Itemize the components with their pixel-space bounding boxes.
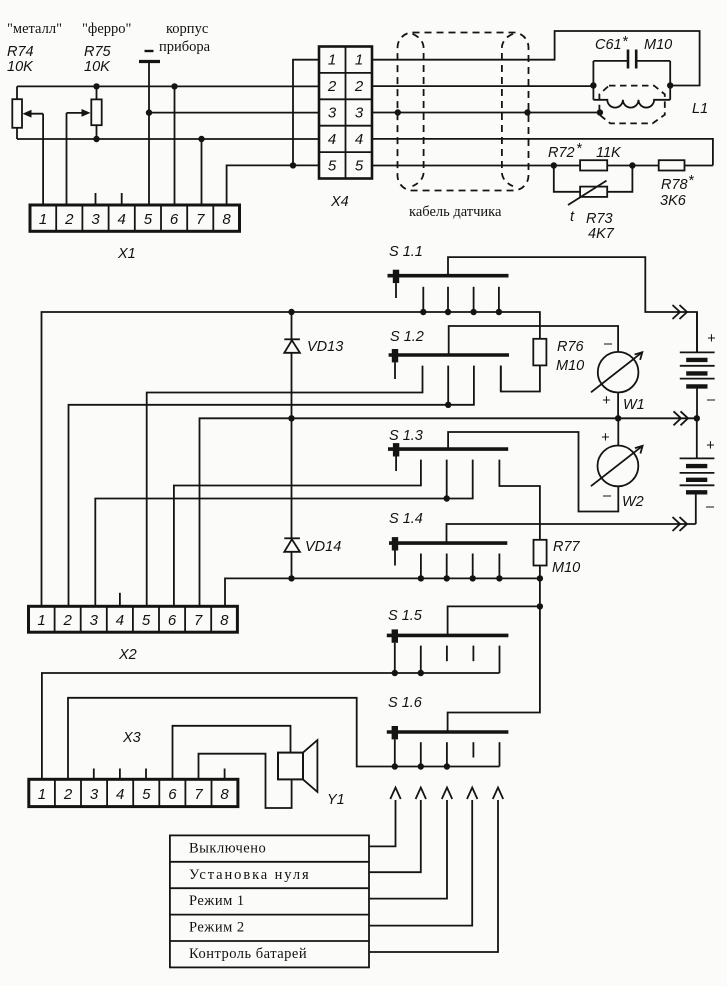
junction R72 node right [629, 162, 635, 168]
wire W2 plus to mid rail [617, 418, 619, 445]
S1.1 stationary contacts [423, 287, 499, 312]
connector chevron rail2 [674, 411, 689, 425]
junction S1.2 contact2 [445, 402, 451, 408]
svg-text:1: 1 [355, 52, 363, 69]
inductor L1 [593, 86, 670, 108]
svg-text:M10: M10 [556, 358, 584, 374]
potentiometer R75 [91, 86, 101, 139]
svg-text:C61: C61 [595, 37, 622, 53]
svg-text:8: 8 [220, 786, 229, 803]
wire S1.3 rotor to W2 minus [448, 432, 618, 512]
svg-text:VD14: VD14 [305, 539, 341, 555]
svg-text:2: 2 [63, 612, 73, 629]
wire R77 bottom [539, 566, 541, 579]
svg-text:5: 5 [355, 158, 364, 175]
junction VD13 top [288, 309, 294, 315]
svg-text:*: * [688, 173, 695, 189]
svg-text:R76: R76 [557, 339, 585, 355]
svg-text:3K6: 3K6 [660, 193, 687, 209]
svg-text:Режим 1: Режим 1 [189, 893, 245, 909]
X4 pin numbers [327, 52, 364, 175]
svg-text:прибора: прибора [159, 39, 211, 55]
S1.4 stationary contacts [421, 554, 500, 579]
svg-text:3: 3 [90, 786, 99, 803]
wire R77 node down to S1.5/S1.6 rotors [448, 578, 540, 730]
wire table row4 to position arrow 4 [369, 800, 472, 926]
battery GB2 [680, 418, 715, 524]
connector X3 [29, 779, 238, 806]
junction shield at cable right [524, 109, 530, 115]
svg-text:S 1.4: S 1.4 [389, 511, 423, 527]
X2 pin numbers [37, 612, 229, 629]
svg-text:"ферро": "ферро" [82, 21, 132, 37]
wire net2: ground / X1 pin5 to X4 row3 [149, 112, 319, 114]
svg-text:7: 7 [196, 211, 205, 228]
svg-text:R77: R77 [553, 539, 581, 555]
node L1 right [667, 82, 673, 88]
junction S1.5 rotor tap [537, 603, 543, 609]
wire S1.5 rotor tap [448, 606, 540, 635]
connector chevron rail1 [673, 305, 688, 319]
svg-text:W2: W2 [622, 494, 644, 510]
junction S1.6 contact1 [418, 763, 424, 769]
resistor R72 [554, 160, 633, 170]
svg-text:8: 8 [222, 211, 231, 228]
resistor R77 [534, 540, 547, 566]
wire net1: R74 top / R75 top / X1 pin6 to X4 row2 [17, 85, 319, 87]
wire bus X2 pin1 / VD13 / S1.1 contacts / R76 top [42, 312, 540, 606]
svg-text:3: 3 [355, 105, 364, 122]
svg-text:7: 7 [194, 786, 203, 803]
svg-text:R75: R75 [84, 44, 112, 60]
wire table row3 to position arrow 3 [369, 800, 447, 899]
svg-text:2: 2 [63, 786, 73, 803]
svg-text:4: 4 [118, 211, 126, 228]
X3 pin5 stub [145, 769, 147, 780]
svg-text:3: 3 [328, 105, 337, 122]
svg-text:R78: R78 [661, 177, 688, 193]
svg-text:8: 8 [220, 612, 229, 629]
svg-text:1: 1 [37, 612, 45, 629]
junction W1/W2 on mid rail [615, 415, 621, 421]
svg-text:5: 5 [142, 612, 151, 629]
battery GB1 [680, 312, 715, 418]
junction shield at L1 screen [597, 109, 603, 115]
svg-text:W1: W1 [623, 397, 645, 413]
position arrow 2 [416, 788, 426, 800]
wire W1 plus to mid rail [617, 393, 619, 419]
wire X4 row4 right to R78 return [372, 139, 713, 166]
svg-text:X4: X4 [330, 194, 349, 210]
wire net4: X1 pin8 to X4 row5 [227, 165, 319, 205]
mode table [170, 835, 369, 967]
switch S1.1 rotor bar [388, 274, 509, 278]
wire X4 row5 right to R72 node [372, 165, 554, 167]
junction R72 node left [551, 162, 557, 168]
S1.3 common contact [393, 443, 399, 456]
wire S1.4 rotor to GB2 minus (chevron rail 3) [447, 524, 696, 543]
svg-text:–: – [706, 392, 716, 408]
junctions S1.4 contacts [418, 575, 424, 581]
svg-text:L1: L1 [692, 101, 708, 117]
svg-text:+: + [602, 393, 610, 409]
svg-text:*: * [622, 34, 629, 50]
junction R77 bottom [537, 575, 543, 581]
wire X1 pin6 riser [174, 86, 176, 205]
svg-text:R72: R72 [548, 145, 575, 161]
S1.3 contacts 2,3 to X2 pin3 [446, 460, 448, 499]
wire table row2 to position arrow 2 [369, 800, 421, 872]
svg-text:M10: M10 [644, 37, 672, 53]
wire bus X3 pin1 / S1.5 common+contacts [42, 673, 500, 779]
ground (корпус) symbol [139, 51, 160, 113]
svg-text:4: 4 [116, 786, 124, 803]
junction X1 pin6 riser on net1 [171, 83, 177, 89]
svg-text:10K: 10K [84, 59, 111, 75]
sensor cable shield (кабель датчика) dashed outline [398, 33, 529, 191]
switch S1.5 rotor bar [387, 634, 509, 638]
svg-text:+: + [707, 331, 715, 347]
svg-text:–: – [602, 488, 612, 504]
S1.3 contact1 to X2 pin6 [174, 460, 421, 607]
junction S1.5 common [392, 670, 398, 676]
svg-text:5: 5 [328, 158, 337, 175]
junction VD13/VD14 on mid rail [288, 415, 294, 421]
svg-text:Y1: Y1 [327, 792, 345, 808]
resistor R78 [632, 160, 713, 170]
svg-text:4: 4 [328, 131, 336, 148]
wire X4 row3 right shield tap [372, 112, 600, 114]
S1.2 contact1 to X2 pin5 [147, 366, 423, 607]
svg-text:1: 1 [328, 52, 336, 69]
X1 pin numbers [39, 211, 231, 228]
svg-text:3: 3 [91, 211, 100, 228]
position arrow 5 [493, 788, 503, 800]
junction S1.6 contact2 [444, 763, 450, 769]
svg-text:корпус: корпус [166, 21, 208, 37]
thermistor R73 [554, 166, 633, 206]
X2 pin4 stub [119, 593, 121, 607]
svg-text:+: + [706, 438, 714, 454]
svg-text:X3: X3 [122, 730, 141, 746]
svg-text:4K7: 4K7 [588, 226, 615, 242]
svg-text:X1: X1 [117, 246, 136, 262]
svg-text:1: 1 [39, 211, 47, 228]
switch S1.3 rotor bar [388, 447, 508, 451]
svg-text:Установка нуля: Установка нуля [189, 867, 311, 883]
L1 screen dashed box [599, 86, 664, 124]
junction S1.3 contact2 [444, 495, 450, 501]
position arrow 4 [467, 788, 477, 800]
wire net3: R74 bottom / R75 bottom / X1 pin7 to X4 row4 [17, 138, 319, 140]
resistor R76 [533, 339, 546, 366]
X1 pin3 stub [95, 193, 97, 205]
meter W1 [598, 352, 639, 393]
svg-text:–: – [603, 336, 613, 352]
svg-text:6: 6 [168, 612, 177, 629]
X3 pin8 stub [224, 769, 226, 780]
svg-text:1: 1 [38, 786, 46, 803]
svg-text:S 1.1: S 1.1 [389, 244, 423, 260]
switch S1.2 rotor bar [389, 353, 509, 357]
junction shield at cable left [395, 109, 401, 115]
S1.4 common contact [392, 537, 398, 550]
S1.5 contacts [421, 646, 500, 673]
svg-text:6: 6 [168, 786, 177, 803]
svg-text:6: 6 [170, 211, 179, 228]
switch S1.6 rotor bar [387, 730, 509, 734]
svg-text:R74: R74 [7, 44, 34, 60]
junction X4 row1 link on net4 [290, 162, 296, 168]
W1 arrow [591, 352, 642, 392]
svg-text:2: 2 [354, 78, 364, 95]
svg-text:VD13: VD13 [307, 339, 343, 355]
connector X1 [30, 205, 240, 231]
svg-text:"металл": "металл" [7, 21, 62, 37]
junction S1.5 contact1 [418, 670, 424, 676]
wire bus X3 pin2 / S1.6 common+contacts [68, 698, 500, 780]
wire table row1 to position arrow 1 [369, 800, 396, 846]
svg-text:S 1.2: S 1.2 [390, 329, 424, 345]
wire bus X2 pin8 / VD14 / S1.4 contacts / R77 [225, 578, 540, 606]
R74 wiper arrow from X1 pin1 [23, 110, 44, 205]
svg-text:Контроль батарей: Контроль батарей [189, 946, 307, 962]
R75 wiper arrow from X1 pin2 [67, 109, 91, 205]
X3 pin4 stub [119, 769, 121, 780]
S1.2 contacts 2,3 to X2 pin2 [447, 366, 449, 405]
junction S1.6 common [392, 763, 398, 769]
X3 pin3 stub [93, 769, 95, 780]
svg-text:4: 4 [116, 612, 124, 629]
S1.6 common contact [392, 726, 398, 739]
diode VD13 [284, 312, 300, 418]
svg-text:3: 3 [90, 612, 99, 629]
S1.5 common contact [392, 629, 398, 642]
diode VD14 [284, 418, 300, 578]
svg-text:M10: M10 [552, 560, 580, 576]
svg-text:4: 4 [355, 131, 363, 148]
junction R75 bottom on net3 [93, 136, 99, 142]
capacitor C61 [593, 50, 670, 86]
svg-text:2: 2 [64, 211, 74, 228]
X1 pin4 stub [121, 193, 123, 205]
svg-text:5: 5 [144, 211, 153, 228]
wire mid rail X2 pin7 to battery junction (chevron rail 2) [200, 418, 697, 606]
W2 arrow [591, 446, 643, 486]
table row labels [189, 841, 311, 963]
connector X4 [319, 47, 372, 179]
svg-text:t: t [570, 209, 575, 225]
svg-text:S 1.6: S 1.6 [388, 695, 423, 711]
wire X3 pin6 to speaker top [173, 726, 291, 780]
potentiometer R74 [12, 86, 22, 139]
S1.3 contact4 to R77 top [499, 460, 540, 540]
wire S1.1 rotor to GB1 plus (chevron rail 1) [448, 257, 697, 352]
svg-text:2: 2 [327, 78, 337, 95]
switch S1.4 rotor bar [389, 541, 507, 545]
meter W2 [598, 446, 639, 487]
wire table row5 to position arrow 5 [369, 800, 498, 952]
svg-text:*: * [576, 141, 583, 157]
svg-text:Режим 2: Режим 2 [189, 920, 245, 936]
svg-text:11K: 11K [596, 145, 622, 161]
junctions S1.1 contacts on bus [420, 309, 426, 315]
S1.1 common contact [393, 270, 399, 283]
junction R75 top on net1 [93, 83, 99, 89]
node L1 left [590, 82, 596, 88]
connector X2 [29, 606, 238, 632]
wire X4 row2 right to L1 left [372, 85, 593, 87]
S1.2 contact4 tick [500, 366, 502, 392]
svg-text:+: + [601, 430, 609, 446]
junction battery mid [694, 415, 700, 421]
svg-text:–: – [705, 499, 715, 515]
junction VD14 bottom [288, 575, 294, 581]
wire X3 pin7 to speaker bottom [199, 754, 292, 808]
svg-text:кабель датчика: кабель датчика [409, 204, 502, 220]
svg-text:R73: R73 [586, 211, 613, 227]
X3 pin numbers [38, 786, 230, 803]
svg-text:10K: 10K [7, 59, 34, 75]
connector chevron rail3 [673, 517, 688, 531]
wire X1 pin7 riser [201, 139, 203, 205]
svg-text:Выключено: Выключено [189, 841, 266, 857]
position arrow 1 [390, 788, 400, 800]
position arrow 3 [442, 788, 452, 800]
S1.6 contacts [421, 742, 500, 766]
svg-text:X2: X2 [118, 647, 137, 663]
svg-text:S 1.5: S 1.5 [388, 608, 423, 624]
junction ground on net2 [146, 109, 152, 115]
wire R76 bottom to S1.2 contact4 [501, 365, 540, 391]
wire X4 row1 link [293, 60, 319, 166]
svg-text:S 1.3: S 1.3 [389, 428, 423, 444]
S1.2 common contact [392, 349, 398, 362]
wire X1 pin5 riser [148, 113, 150, 205]
junction X1 pin7 riser on net3 [198, 136, 204, 142]
wire S1.2 rotor to W1 minus [449, 326, 618, 355]
wire X4 row1 right to C61/L1 top [372, 31, 700, 86]
svg-text:7: 7 [194, 612, 203, 629]
speaker Y1 [278, 740, 317, 792]
svg-text:5: 5 [142, 786, 151, 803]
